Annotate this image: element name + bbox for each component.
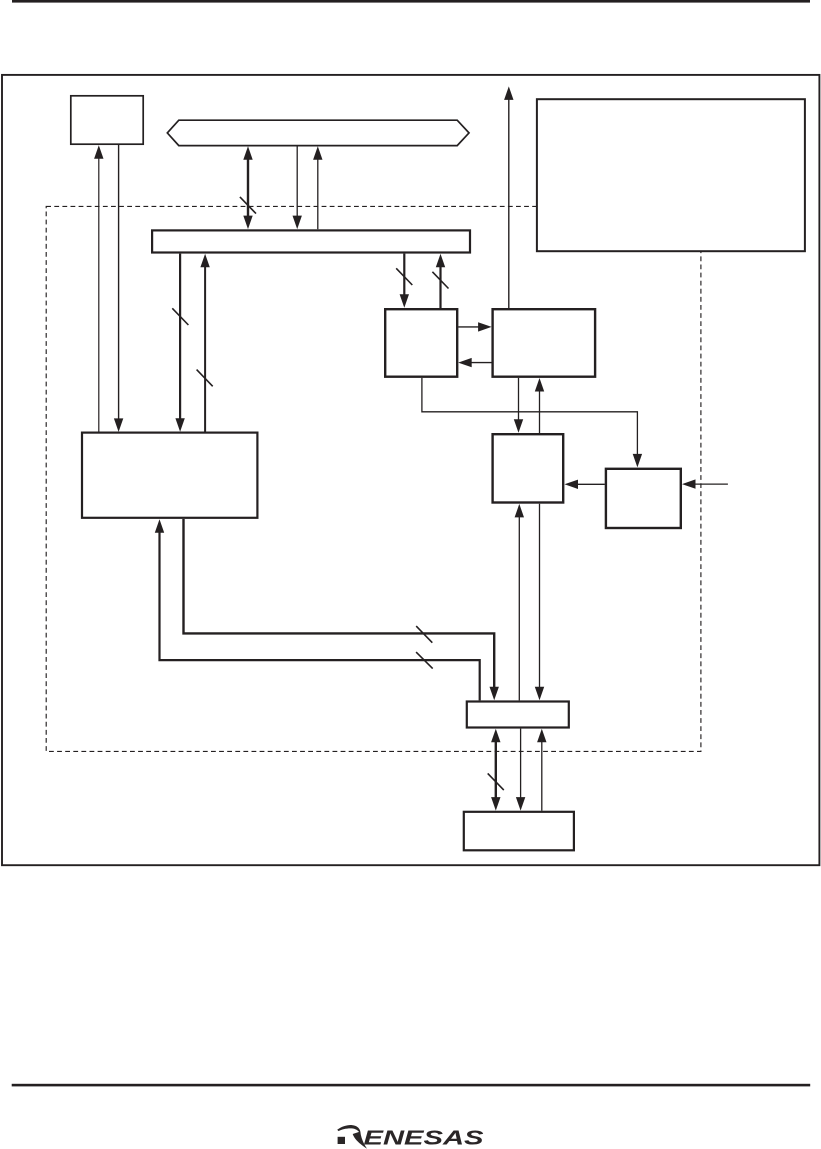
dashed module boundary xyxy=(46,206,701,751)
wire B to A xyxy=(464,362,491,364)
wire C down into small bar xyxy=(539,504,541,695)
wire external into D xyxy=(688,483,728,485)
thick double arrow hexagon to bus bar xyxy=(247,153,249,224)
wire D to C xyxy=(571,483,605,485)
wire block A up into bus bar xyxy=(439,260,441,308)
block bottom xyxy=(464,812,574,851)
bus width slash xyxy=(416,626,432,643)
wire small bar to left large box (L path) xyxy=(160,529,480,700)
tall wire block B up out of module xyxy=(508,97,510,309)
block left large xyxy=(82,433,257,518)
bus width slash xyxy=(432,272,448,289)
logo square dot xyxy=(338,1137,345,1144)
thick double arrow small bar to bottom block xyxy=(495,735,497,805)
block A xyxy=(385,309,457,377)
wire up into small box xyxy=(98,155,100,432)
wire hexagon down to bus bar xyxy=(296,146,298,223)
wire bottom block up into small bar xyxy=(541,735,543,811)
block D xyxy=(606,469,681,528)
block B xyxy=(493,309,595,377)
bus hexagon xyxy=(167,120,469,145)
wire left large box to small bar (L path) xyxy=(184,519,495,694)
wire down into left large box xyxy=(118,145,120,423)
small bus bar bottom xyxy=(467,702,569,728)
wire small bar down into bottom block xyxy=(520,729,522,805)
Renesas logo xyxy=(337,1125,484,1149)
wire bus bar down into left large box xyxy=(179,254,181,426)
wire A to B xyxy=(458,326,485,328)
bus width slash xyxy=(416,652,433,669)
wire block A to block D top xyxy=(422,378,638,462)
wire left large box up into bus bar xyxy=(204,260,206,432)
bus width slash xyxy=(396,268,412,285)
bus width slash xyxy=(488,773,504,790)
bus bar xyxy=(152,230,470,252)
bus width slash xyxy=(240,197,256,214)
block top-left small xyxy=(71,96,143,144)
logo R swoosh xyxy=(337,1125,360,1134)
footer rule xyxy=(12,1084,811,1087)
wire B down into C xyxy=(518,378,520,427)
bus width slash xyxy=(197,370,213,387)
svg-text:ENESAS: ENESAS xyxy=(364,1127,484,1149)
wire C up into B xyxy=(539,384,541,433)
header rule xyxy=(12,0,810,3)
wire small bar up into C xyxy=(518,510,520,700)
block C xyxy=(493,434,564,502)
wire bus bar down into block A xyxy=(403,254,405,302)
wire bus bar up to hexagon xyxy=(317,153,319,229)
figure frame xyxy=(2,75,819,865)
block top-right large xyxy=(537,99,805,251)
bus width slash xyxy=(172,308,188,325)
